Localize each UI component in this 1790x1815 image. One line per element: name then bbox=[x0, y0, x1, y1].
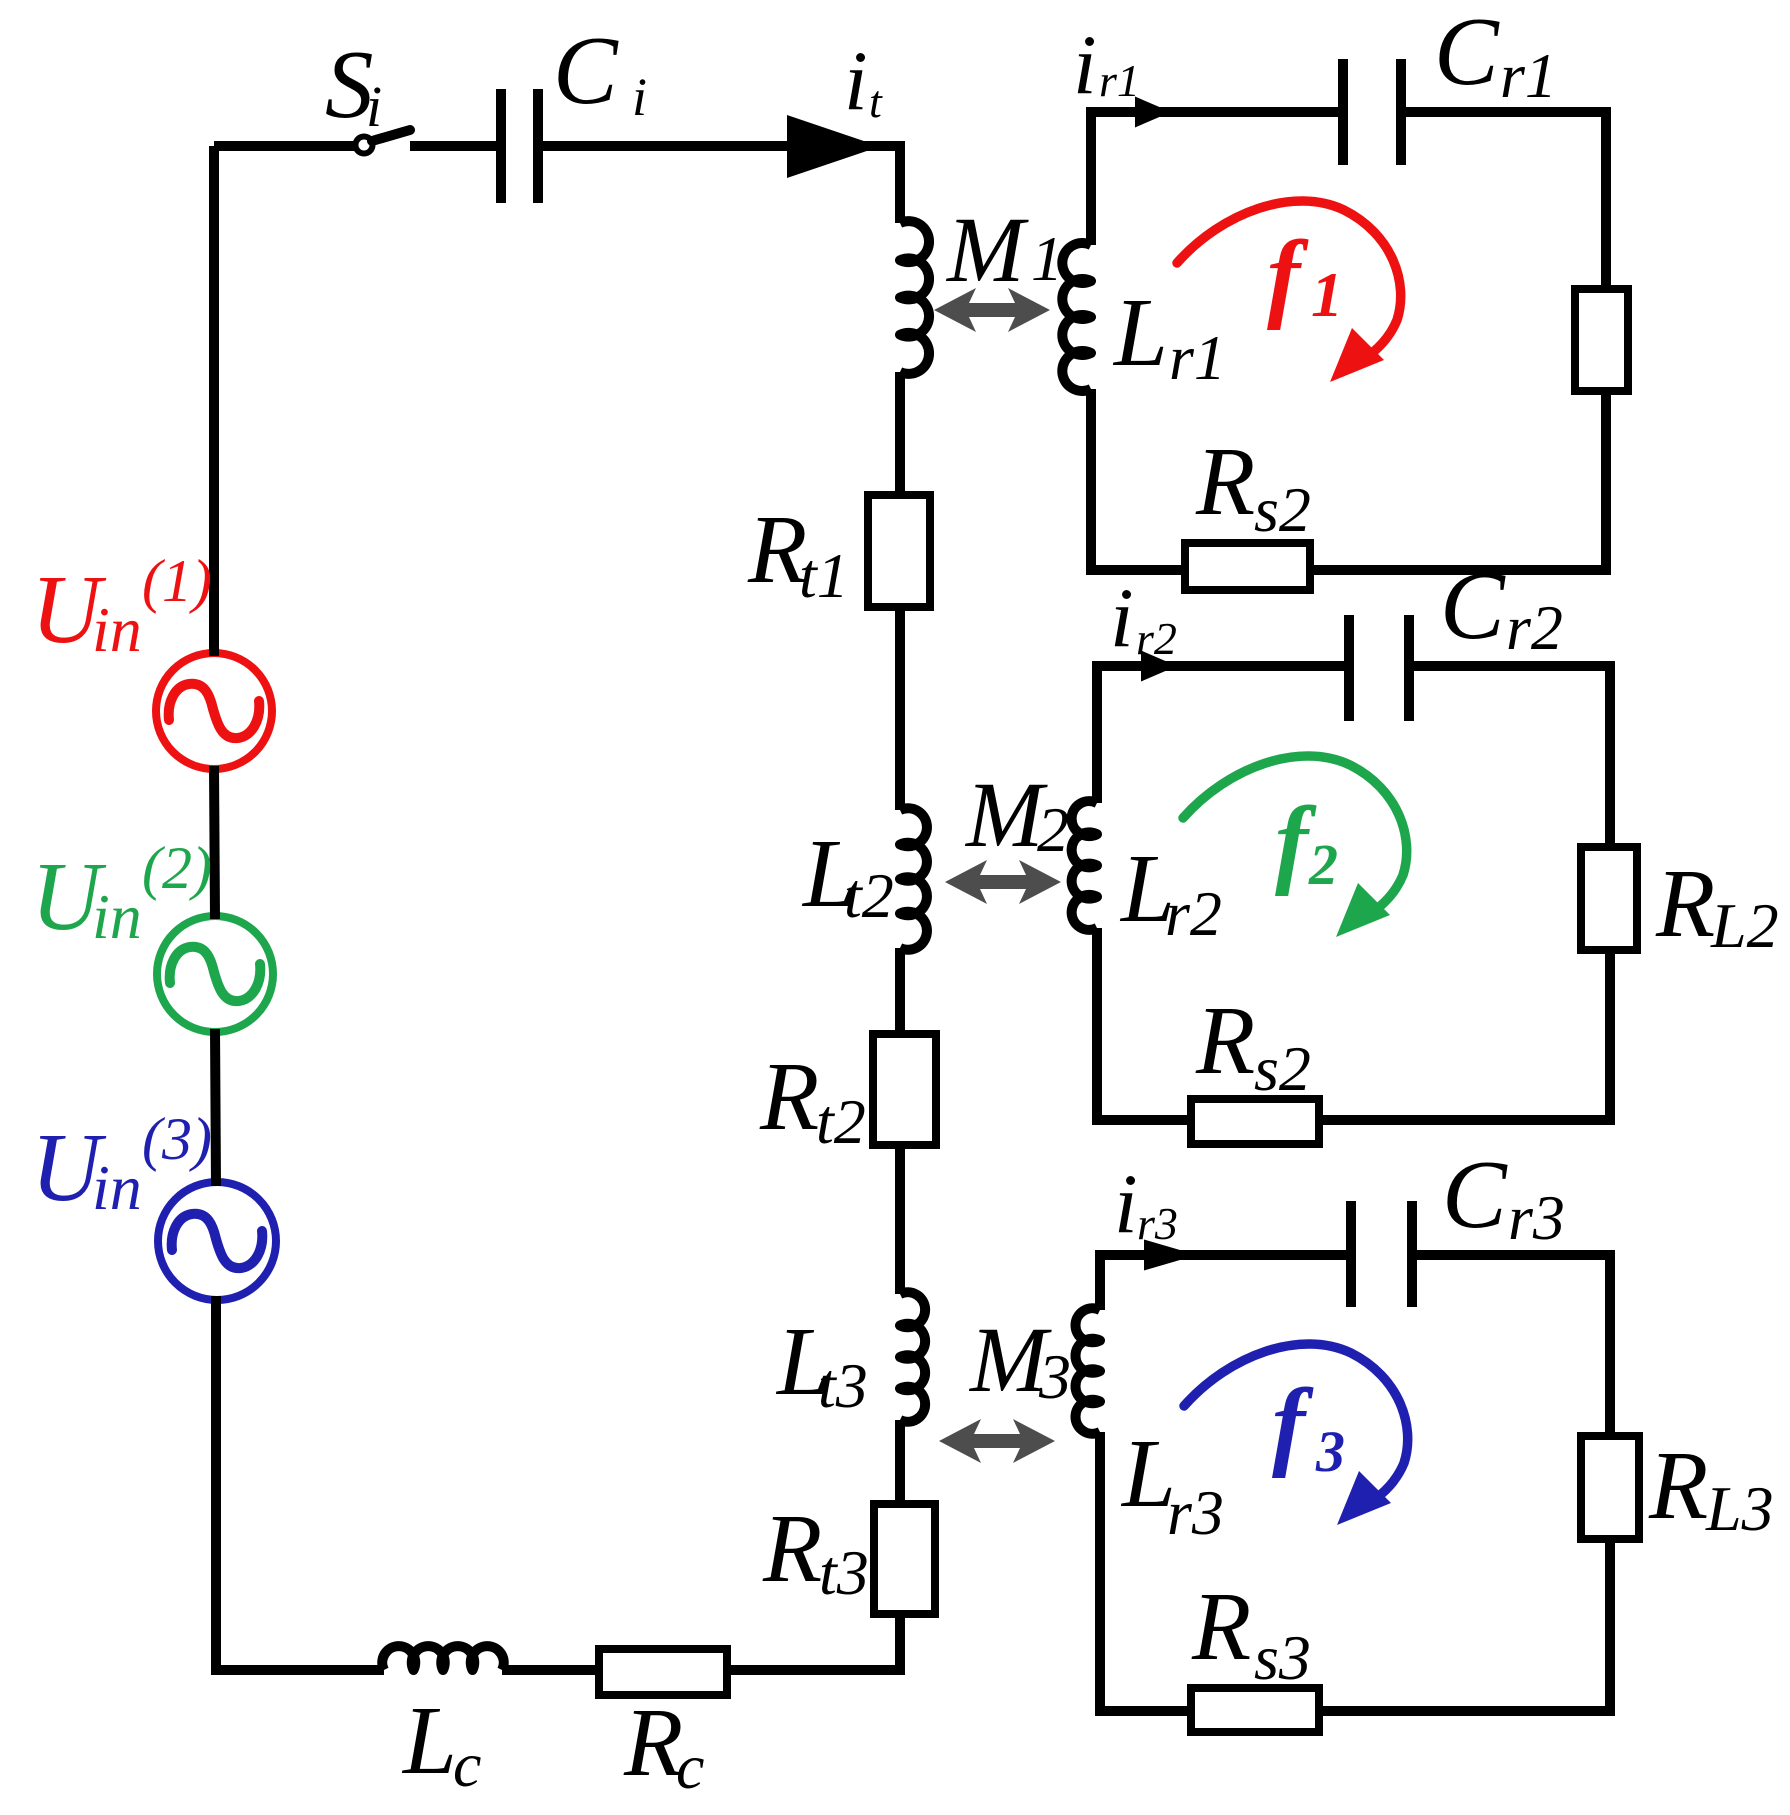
svg-text:R: R bbox=[623, 1689, 683, 1796]
svg-text:s2: s2 bbox=[1254, 474, 1311, 545]
svg-text:(3): (3) bbox=[142, 1106, 212, 1172]
svg-text:i: i bbox=[1114, 1157, 1138, 1251]
svg-text:(1): (1) bbox=[142, 548, 212, 614]
svg-text:r2: r2 bbox=[1165, 878, 1222, 949]
svg-text:L3: L3 bbox=[1705, 1473, 1774, 1544]
svg-text:L: L bbox=[401, 1687, 457, 1794]
svg-text:3: 3 bbox=[1315, 1419, 1345, 1484]
svg-text:r3: r3 bbox=[1508, 1182, 1565, 1253]
svg-text:L: L bbox=[1112, 279, 1168, 386]
svg-text:in: in bbox=[92, 1152, 142, 1223]
svg-text:2: 2 bbox=[1037, 794, 1069, 865]
svg-text:(2): (2) bbox=[142, 835, 212, 901]
svg-text:i: i bbox=[1110, 571, 1134, 665]
svg-text:s2: s2 bbox=[1254, 1033, 1311, 1104]
svg-text:r1: r1 bbox=[1169, 322, 1226, 393]
svg-text:R: R bbox=[762, 1495, 822, 1602]
svg-text:r3: r3 bbox=[1137, 1198, 1178, 1249]
svg-text:t2: t2 bbox=[844, 860, 894, 931]
svg-text:i: i bbox=[366, 74, 382, 139]
svg-text:C: C bbox=[1434, 0, 1500, 105]
svg-text:s3: s3 bbox=[1254, 1622, 1311, 1693]
svg-text:t: t bbox=[869, 76, 883, 127]
svg-text:R: R bbox=[1648, 1432, 1708, 1539]
svg-text:r1: r1 bbox=[1099, 55, 1140, 106]
svg-text:t3: t3 bbox=[818, 1350, 868, 1421]
svg-text:R: R bbox=[1195, 428, 1255, 535]
svg-text:C: C bbox=[1440, 552, 1506, 659]
svg-text:M: M bbox=[945, 199, 1029, 302]
svg-text:c: c bbox=[676, 1731, 704, 1802]
svg-text:C: C bbox=[553, 17, 619, 124]
svg-text:M: M bbox=[964, 764, 1048, 867]
svg-text:in: in bbox=[92, 594, 142, 665]
svg-text:R: R bbox=[1195, 987, 1255, 1094]
svg-text:t3: t3 bbox=[819, 1537, 869, 1608]
svg-text:c: c bbox=[453, 1729, 481, 1800]
svg-text:in: in bbox=[92, 881, 142, 952]
svg-text:C: C bbox=[1442, 1141, 1508, 1248]
svg-text:1: 1 bbox=[1031, 223, 1063, 294]
svg-text:t1: t1 bbox=[799, 540, 849, 611]
svg-text:R: R bbox=[1191, 1573, 1251, 1680]
svg-text:R: R bbox=[759, 1043, 819, 1150]
svg-text:r2: r2 bbox=[1506, 592, 1563, 663]
svg-text:L2: L2 bbox=[1710, 890, 1779, 961]
svg-text:i: i bbox=[844, 34, 868, 128]
svg-text:1: 1 bbox=[1311, 259, 1343, 330]
svg-text:r2: r2 bbox=[1136, 613, 1177, 664]
svg-text:R: R bbox=[1655, 850, 1715, 957]
svg-text:i: i bbox=[1073, 18, 1097, 112]
svg-text:2: 2 bbox=[1308, 832, 1338, 897]
svg-text:r1: r1 bbox=[1500, 40, 1557, 111]
svg-text:r3: r3 bbox=[1167, 1477, 1224, 1548]
svg-text:t2: t2 bbox=[816, 1086, 866, 1157]
svg-text:i: i bbox=[632, 67, 647, 127]
svg-text:3: 3 bbox=[1038, 1341, 1071, 1412]
